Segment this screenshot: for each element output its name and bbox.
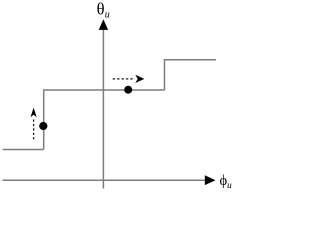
- step function: riser from middle to top level: [164, 59, 166, 90]
- x-axis arrowhead: [205, 175, 216, 185]
- dashed transition arrowhead (upward): [31, 108, 37, 118]
- step function: top level segment: [165, 59, 217, 61]
- state dot on lower riser: [39, 122, 47, 130]
- state dot on middle level: [124, 86, 132, 94]
- dashed transition arrowhead (rightward): [135, 75, 144, 83]
- x-axis phi_u: [3, 179, 207, 181]
- svg-text:u: u: [105, 10, 110, 21]
- dashed transition arrow (upward): [33, 118, 35, 140]
- y-axis arrowhead: [99, 19, 108, 30]
- svg-text:u: u: [227, 181, 232, 191]
- step function: riser from lower to middle level: [43, 89, 45, 149]
- step function: lower level segment: [3, 149, 44, 151]
- y-axis theta_u: [102, 27, 104, 189]
- svg-text:θ: θ: [97, 0, 105, 18]
- dashed transition arrow (rightward): [113, 78, 135, 80]
- step function: middle level segment: [44, 89, 165, 91]
